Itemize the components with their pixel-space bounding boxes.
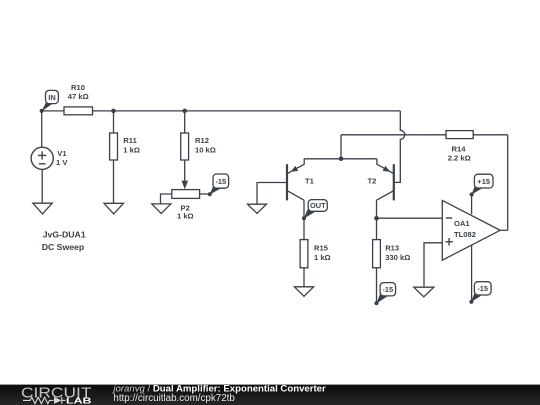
- svg-text:OUT: OUT: [310, 201, 326, 210]
- wire feedback horizontal to R14: [341, 134, 446, 136]
- flag tail +15: [471, 183, 483, 195]
- T2 emitter arrow: [383, 166, 391, 172]
- svg-text:IN: IN: [48, 93, 55, 102]
- svg-text:47 kΩ: 47 kΩ: [68, 92, 89, 101]
- attach dot opamp -15: [469, 300, 473, 304]
- svg-text:-15: -15: [477, 284, 488, 293]
- junction dot R11: [111, 109, 116, 114]
- attach dot R13 -15: [374, 301, 378, 305]
- svg-text:-15: -15: [382, 285, 393, 294]
- flag box R13 -15: [380, 283, 396, 296]
- ground under V1: [33, 203, 52, 214]
- svg-text:R14: R14: [452, 145, 467, 154]
- flag box P2 -15: [213, 174, 229, 188]
- ground under R11: [104, 203, 124, 214]
- svg-text:OA1: OA1: [454, 219, 470, 228]
- T1 emitter arrow: [291, 166, 299, 172]
- P2 wiper arrow: [182, 181, 189, 190]
- svg-text:DC Sweep: DC Sweep: [42, 242, 84, 252]
- wire V1 bottom to ground: [41, 169, 43, 203]
- flag tail R13 -15: [376, 292, 388, 304]
- junction dot emitter rail: [339, 157, 344, 162]
- ground opamp plus input: [414, 287, 434, 297]
- svg-text:T2: T2: [368, 177, 377, 186]
- svg-text:R11: R11: [123, 136, 137, 145]
- svg-text:1 kΩ: 1 kΩ: [314, 253, 331, 262]
- wire T1 emitter diagonal: [287, 159, 304, 174]
- svg-text:1 kΩ: 1 kΩ: [177, 212, 194, 221]
- wire T2 collector down to R13: [376, 200, 378, 239]
- flag tail IN: [41, 103, 52, 112]
- resistor R10: [64, 107, 93, 115]
- svg-text:LAB: LAB: [66, 396, 92, 405]
- voltage source V1: [31, 147, 53, 169]
- transistor T1 base bar: [286, 164, 288, 200]
- svg-text:R15: R15: [314, 244, 329, 253]
- wire T1 collector down to R15: [303, 200, 305, 239]
- svg-text:10 kΩ: 10 kΩ: [195, 146, 216, 155]
- wire T2 emitter diagonal: [377, 159, 394, 174]
- wire T2 base feed with hop: [395, 111, 405, 182]
- potentiometer P2 body: [172, 190, 200, 199]
- transistor T2 base bar: [393, 164, 395, 200]
- wire R15 bottom to ground: [303, 268, 305, 287]
- flag box +15: [474, 174, 493, 188]
- wire R11 branch: [113, 111, 115, 203]
- ground under R15: [294, 287, 313, 297]
- svg-text:1 V: 1 V: [56, 158, 68, 167]
- svg-text:-15: -15: [215, 177, 226, 186]
- svg-text:R12: R12: [195, 136, 209, 145]
- wire IN node to V1 top: [41, 111, 43, 147]
- op-amp plus symbol: [445, 238, 452, 245]
- wire opamp V+ stub: [471, 195, 473, 215]
- wire R13 bottom to -15 flag: [376, 268, 378, 303]
- wire T1 collector diagonal: [287, 191, 304, 201]
- svg-text:T1: T1: [305, 177, 315, 186]
- svg-text:R10: R10: [71, 83, 85, 92]
- footer logo squiggle: [23, 397, 66, 404]
- svg-text:http://circuitlab.com/cpk72tb: http://circuitlab.com/cpk72tb: [113, 393, 235, 404]
- wire opamp V- stub: [471, 245, 473, 302]
- flag box IN: [46, 90, 59, 103]
- svg-text:+15: +15: [477, 177, 490, 186]
- junction dot minus input: [374, 216, 379, 221]
- svg-text:V1: V1: [57, 149, 67, 158]
- op-amp OA1 triangle: [442, 200, 500, 260]
- op-amp minus symbol: [446, 217, 452, 219]
- ground under P2: [152, 204, 171, 214]
- wire R14 right lead: [473, 134, 508, 136]
- resistor R11: [110, 133, 118, 160]
- wire output up to R14: [507, 135, 509, 231]
- resistor R12: [181, 133, 189, 160]
- wire emitter rail T1 to T2: [304, 158, 377, 160]
- svg-text:TL082: TL082: [454, 230, 476, 239]
- flag tail P2 -15: [210, 183, 222, 195]
- wire emitter junction up: [340, 135, 342, 159]
- svg-text:R13: R13: [385, 244, 399, 253]
- resistor R14: [446, 131, 473, 139]
- svg-text:JvG-DUA1: JvG-DUA1: [43, 229, 86, 239]
- wire opamp output: [500, 229, 508, 231]
- svg-text:1 kΩ: 1 kΩ: [123, 146, 140, 155]
- svg-text:330 kΩ: 330 kΩ: [385, 253, 410, 262]
- wire T2 collector diagonal: [377, 191, 394, 201]
- attach dot P2 -15: [208, 192, 212, 196]
- wire R12 branch down to P2 arrow: [184, 111, 186, 181]
- svg-text:2.2 kΩ: 2.2 kΩ: [448, 154, 471, 163]
- flag box OUT: [308, 200, 327, 212]
- resistor R15: [300, 240, 308, 268]
- wire opamp minus input: [377, 217, 443, 219]
- attach dot IN: [40, 109, 44, 113]
- wire T1 base to ground: [257, 183, 287, 205]
- flag tail OUT: [304, 206, 316, 219]
- wire P2 right terminal to -15 flag: [200, 193, 210, 195]
- attach dot OUT: [302, 216, 306, 220]
- wire opamp plus input to ground: [424, 243, 442, 287]
- attach dot +15: [470, 192, 474, 196]
- ground T1 base: [248, 204, 267, 213]
- flag tail opamp -15: [471, 291, 483, 303]
- wire P2 left terminal to ground: [161, 194, 172, 204]
- junction dot R12: [182, 109, 187, 114]
- flag box opamp -15: [474, 282, 491, 295]
- resistor R13: [373, 240, 381, 268]
- wire main top rail: [42, 110, 401, 112]
